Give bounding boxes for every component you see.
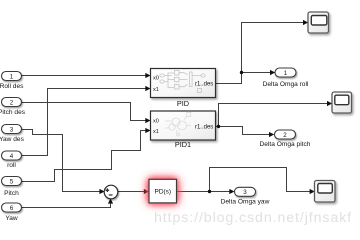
arrow into port Delta Omga pitch (269, 132, 274, 137)
svg-text:2: 2 (10, 99, 14, 106)
svg-text:3: 3 (243, 189, 247, 196)
wire port5 Pitch to PID1 x1 (22, 131, 146, 182)
arrow into PID1 x0 (145, 118, 150, 123)
arrow into scope2 (327, 101, 332, 106)
inport 3 Yaw des (0, 125, 25, 143)
outport 3 Delta Omga yaw (221, 187, 270, 205)
svg-text:Roll des: Roll des (0, 83, 24, 90)
plus sign (106, 188, 110, 192)
svg-text:PID: PID (177, 99, 189, 108)
subsystem PID (151, 69, 216, 109)
wire branch to Delta Omga roll port (242, 72, 271, 74)
svg-text:r1..des: r1..des (195, 124, 213, 130)
svg-text:PID1: PID1 (175, 140, 191, 149)
svg-text:3: 3 (10, 126, 14, 133)
svg-text:Pitch des: Pitch des (0, 109, 26, 116)
wire port1 Roll des to PID x0 (22, 75, 146, 77)
svg-text:https://blog.csdn.net/jfnsakf: https://blog.csdn.net/jfnsakf (154, 210, 352, 226)
arrowheads (99, 20, 332, 204)
svg-text:PD(s): PD(s) (154, 189, 171, 196)
arrow into PID x0 (145, 73, 150, 78)
junction node PID1 out (217, 125, 220, 128)
inport 6 Yaw (2, 203, 22, 222)
subsystem PID1 (151, 111, 216, 149)
svg-text:Delta Omga pitch: Delta Omga pitch (260, 141, 311, 148)
wire PID1 out branch up to scope2 (216, 104, 328, 127)
svg-text:Yaw: Yaw (5, 215, 18, 222)
svg-text:x0: x0 (153, 76, 159, 82)
arrow into scope3 (310, 189, 315, 194)
arrow into sum bottom (108, 198, 113, 203)
svg-text:Delta Omga roll: Delta Omga roll (263, 81, 309, 88)
svg-text:4: 4 (10, 153, 14, 160)
svg-text:x1: x1 (153, 129, 159, 135)
svg-text:Yaw des: Yaw des (0, 136, 25, 143)
transfer-fcn PD(s) highlighted (146, 177, 181, 206)
wire branch to Delta Omga pitch port (219, 127, 270, 135)
wire port3 Yaw des to sum plus (22, 130, 101, 192)
arrow into PID1 x1 (145, 128, 150, 133)
wire sum to PD(s) (118, 191, 145, 193)
scope3 (315, 181, 336, 203)
inport 4 roll (2, 151, 22, 169)
wire port6 Yaw to sum minus (22, 203, 111, 208)
inport 2 Pitch des (0, 98, 26, 116)
svg-text:5: 5 (10, 178, 14, 185)
minus sign (109, 194, 113, 196)
arrow into scope1 (303, 20, 308, 25)
svg-text:roll: roll (7, 162, 16, 169)
svg-text:Delta Omga yaw: Delta Omga yaw (221, 199, 270, 206)
svg-text:r1..des: r1..des (195, 81, 213, 87)
inport 1 Roll des (0, 72, 24, 90)
junction node PID out (240, 71, 243, 74)
wire PID out up to scope1 (216, 23, 304, 84)
sum junction (104, 185, 118, 199)
arrow into port Delta Omga roll (270, 70, 275, 75)
svg-text:x1: x1 (153, 87, 159, 93)
scope1 (308, 12, 329, 33)
svg-text:2: 2 (283, 132, 287, 139)
junction node PD out (208, 190, 211, 193)
svg-text:6: 6 (10, 205, 14, 212)
arrow into PID x1 (145, 86, 150, 91)
wire port2 Pitch des to PID1 x0 (22, 103, 146, 121)
svg-text:x0: x0 (153, 119, 159, 125)
outport 1 Delta Omga roll (263, 68, 309, 88)
scope2 (332, 92, 352, 113)
svg-text:1: 1 (284, 70, 288, 77)
wire PD(s) to Delta Omga yaw port (177, 191, 230, 193)
svg-text:1: 1 (10, 73, 14, 80)
arrow into port Delta Omga yaw (229, 189, 234, 194)
arrow into PD(s) (144, 189, 149, 194)
wire port4 roll to PID x1 (22, 89, 146, 156)
outport 2 Delta Omga pitch (260, 130, 311, 148)
svg-text:Pitch: Pitch (4, 190, 19, 197)
inport 5 Pitch (2, 177, 22, 197)
arrow into sum left (99, 189, 104, 194)
wire PD(s) branch to scope3 (210, 168, 311, 192)
